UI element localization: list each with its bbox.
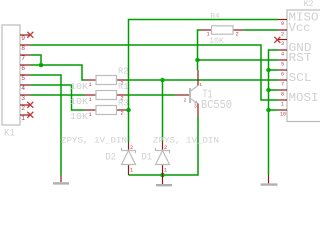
K2 pin 2 Vcc (278, 29, 287, 31)
ground symbol right (K2 GND net) (268, 175, 270, 183)
svg-text:2: 2 (21, 105, 25, 112)
svg-text:1: 1 (21, 115, 25, 122)
wire: R1 pin2 to T1 base (127, 94, 176, 96)
svg-text:1: 1 (89, 81, 93, 88)
svg-text:MOSI: MOSI (289, 91, 319, 105)
svg-text:ZPYS, 1V_DIN: ZPYS, 1V_DIN (153, 135, 219, 145)
wire: R3 pin2 to vertical A (127, 109, 129, 111)
wire: K1 pin4 to R3 pin1 (31, 85, 85, 110)
svg-text:K1: K1 (4, 129, 15, 140)
svg-text:R3: R3 (118, 99, 129, 109)
svg-text:9: 9 (21, 35, 25, 42)
wire: vertical B down to D1 (162, 80, 164, 142)
wire: emitter to bottom rail (129, 117, 199, 176)
svg-text:4: 4 (21, 85, 25, 92)
svg-text:6: 6 (281, 72, 284, 78)
svg-text:3: 3 (194, 103, 197, 109)
K1 pin 2 (20, 104, 31, 106)
svg-text:2: 2 (164, 145, 167, 151)
svg-text:7: 7 (21, 55, 25, 62)
no-connect X on K1 pin 1 (27, 112, 33, 118)
K1 pin 5 (20, 74, 31, 76)
svg-text:D1: D1 (142, 152, 153, 164)
svg-text:10: 10 (280, 112, 286, 118)
svg-text:3: 3 (281, 41, 284, 47)
K1 pin 1 (20, 114, 31, 116)
wire: K1 pin5 to ground (31, 75, 62, 175)
svg-text:RST: RST (289, 51, 312, 65)
svg-text:10K: 10K (70, 97, 89, 107)
K2 pin 8 (278, 89, 287, 91)
no-connect X on K2 pin 3 (274, 37, 280, 43)
wire: R2 pin2 to K2 SCL (through junction B) (127, 79, 279, 81)
K1 pin 9 (20, 34, 31, 36)
wire: R4 pin1 down to T1 collector (198, 30, 202, 70)
K2 pin 10 (278, 109, 287, 111)
svg-text:1: 1 (89, 111, 93, 118)
wire: RST to K2 (198, 59, 279, 61)
svg-text:R4: R4 (211, 13, 220, 21)
transistor T1 BC550 (175, 94, 189, 96)
connector K1 (2, 25, 20, 125)
wire: R4 pin2 to K2 Vcc (244, 29, 279, 31)
svg-text:5: 5 (281, 62, 284, 68)
no-connect X on K1 pin 2 (27, 102, 33, 108)
K2 pin 9 MISO (278, 19, 287, 21)
wire: K1 pin3 to R1 pin1 (31, 94, 85, 96)
svg-text:SCL: SCL (289, 71, 312, 85)
svg-text:6: 6 (21, 65, 25, 72)
zener diode D1 (162, 142, 164, 151)
svg-text:ZPYS, 1V_DIN: ZPYS, 1V_DIN (61, 135, 127, 145)
junction C at y=90 (266, 88, 271, 93)
svg-text:3: 3 (21, 95, 25, 102)
K2 pin 7 SCL (278, 79, 287, 81)
K2 pin 5 RST (278, 59, 287, 61)
K1 pin 3 (20, 94, 31, 96)
svg-text:Vcc: Vcc (289, 21, 311, 35)
svg-text:2: 2 (121, 110, 124, 117)
svg-text:2: 2 (236, 32, 239, 38)
svg-text:10K: 10K (70, 82, 89, 92)
svg-text:K2: K2 (304, 0, 314, 9)
svg-text:10K: 10K (70, 112, 89, 122)
resistor R2 (85, 79, 97, 81)
svg-text:2: 2 (281, 32, 284, 38)
wire: K1 pin6 to R2 pin1 (31, 65, 85, 80)
resistor R3 (85, 109, 97, 111)
wire: K1 pin8 to K2 MOSI (31, 45, 279, 100)
svg-text:7: 7 (281, 82, 284, 88)
resistor R4 (201, 29, 212, 31)
zener diode D2 (128, 142, 130, 151)
svg-text:10K: 10K (209, 37, 224, 46)
svg-text:1: 1 (164, 168, 167, 174)
connector K2 (287, 10, 320, 122)
svg-text:4: 4 (281, 52, 284, 58)
svg-text:1: 1 (130, 168, 133, 174)
svg-text:5: 5 (21, 75, 25, 82)
wire: K1 pin7 down to pin6 (31, 55, 42, 65)
svg-text:8: 8 (281, 92, 284, 98)
resistor R1 (85, 94, 97, 96)
K2 pin 4 GND (278, 49, 287, 51)
svg-text:1: 1 (281, 102, 284, 108)
K1 pin 7 (20, 54, 31, 56)
wire: vertical A + MISO line (129, 20, 279, 143)
wire stub C to K2 pin at y=90 (269, 89, 279, 91)
junction pin7/pin6 (39, 63, 44, 68)
svg-text:8: 8 (21, 45, 25, 52)
K2 pin 1 MOSI (278, 99, 287, 101)
wire stub C to K2 pin at y=110 (269, 109, 279, 111)
svg-text:R2: R2 (118, 67, 129, 77)
junction SCL / vertical B (160, 78, 165, 83)
K1 pin 4 (20, 84, 31, 86)
K1 pin 6 (20, 64, 31, 66)
wire stub C to K2 pin at y=70 (269, 69, 279, 71)
wire: K2 GND vertical C (269, 50, 279, 175)
K2 pin 3 (278, 39, 287, 41)
junction R3 / vertical A (126, 108, 131, 113)
svg-text:2: 2 (130, 145, 133, 151)
junction R4-vertical / RST (195, 58, 200, 63)
svg-text:9: 9 (281, 21, 284, 27)
junction C at y=110 (266, 108, 271, 113)
svg-text:2: 2 (184, 98, 187, 104)
svg-text:1: 1 (89, 96, 93, 103)
svg-text:BC550: BC550 (201, 98, 232, 112)
ground symbol left (K1 pin5 net) (60, 175, 62, 182)
svg-text:R1: R1 (118, 82, 129, 92)
no-connect X on K1 pin 9 (27, 32, 33, 38)
K2 pin 6 (278, 69, 287, 71)
junction C at y=70 (266, 68, 271, 73)
ground symbol middle (diode rail) (162, 175, 164, 184)
junction bottom rail / middle ground (160, 173, 165, 178)
svg-text:D2: D2 (106, 152, 117, 164)
K1 pin 8 (20, 44, 31, 46)
